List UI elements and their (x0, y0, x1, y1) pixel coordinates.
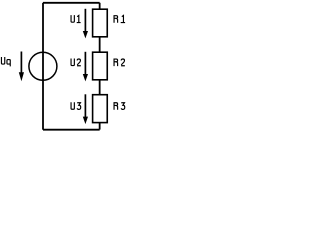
label R2 (114, 59, 125, 66)
label Uq (1, 57, 10, 66)
voltage arrow U1 (83, 9, 88, 39)
resistor R3 (93, 95, 108, 123)
voltage arrow Uq (19, 52, 24, 82)
wire right upper (top corner to R1) (99, 3, 101, 9)
resistor R1 (93, 9, 108, 37)
label R3 (114, 103, 125, 110)
wire top (43, 2, 100, 4)
label U1 (71, 15, 81, 23)
wire R3 to bottom (99, 123, 101, 130)
voltage arrow U2 (83, 52, 88, 82)
wire R1 to R2 (99, 37, 101, 52)
wire R2 to R3 (99, 80, 101, 95)
wire bottom (43, 129, 100, 131)
label U3 (71, 102, 81, 109)
wire left branch (42, 3, 44, 130)
voltage source V1 (circle) (29, 52, 57, 80)
label R1 (114, 15, 125, 22)
voltage arrow U3 (83, 94, 88, 124)
label U2 (71, 59, 81, 66)
resistor R2 (93, 52, 108, 80)
